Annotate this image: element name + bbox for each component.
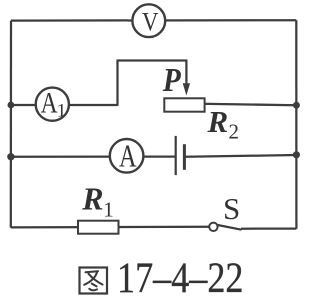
svg-text:R: R	[81, 181, 103, 217]
wire bottom right segment	[241, 227, 296, 229]
wire row3 left (to ammeter A)	[11, 155, 176, 157]
wire row2 right (rheostat to right rail)	[200, 104, 296, 105]
wire row3 right (battery to right rail)	[186, 155, 297, 157]
wire wiper stem	[185, 60, 187, 86]
wire top	[11, 19, 296, 22]
junction dot right row3	[293, 151, 300, 158]
svg-text:P: P	[162, 62, 181, 99]
svg-text:1: 1	[57, 100, 66, 121]
svg-text:2: 2	[229, 120, 240, 144]
wire row2 left (to ammeter A1)	[11, 104, 118, 106]
svg-text:R: R	[207, 104, 229, 139]
caption hanzi TU (drawn) outer box	[80, 268, 108, 294]
battery long plate	[175, 136, 177, 175]
battery short plate	[183, 144, 186, 170]
junction dot left row3	[7, 153, 14, 160]
switch S pivot circle	[209, 223, 217, 231]
junction dot left row2	[7, 102, 14, 109]
svg-text:A: A	[119, 138, 137, 173]
ammeter A circle	[110, 139, 144, 173]
wire jog horizontal to wiper	[117, 59, 187, 61]
voltmeter V circle	[132, 4, 165, 37]
switch S lever	[218, 225, 242, 230]
svg-text:17–4–22: 17–4–22	[117, 255, 244, 302]
wire jog vertical up from A1	[116, 61, 118, 106]
svg-text:1: 1	[103, 198, 114, 222]
caption hanzi TU inner strokes	[84, 271, 102, 290]
wire left	[10, 21, 12, 228]
rheostat R2 body	[164, 98, 204, 111]
svg-text:S: S	[223, 191, 240, 226]
ammeter A1 circle	[36, 88, 69, 121]
wiper arrowhead P	[183, 83, 190, 95]
svg-text:A: A	[41, 87, 59, 119]
resistor R1 body	[78, 221, 119, 234]
junction dot right row2	[293, 102, 300, 109]
wire bottom left segment	[11, 226, 210, 229]
wire right	[295, 20, 297, 229]
svg-text:V: V	[142, 6, 159, 36]
